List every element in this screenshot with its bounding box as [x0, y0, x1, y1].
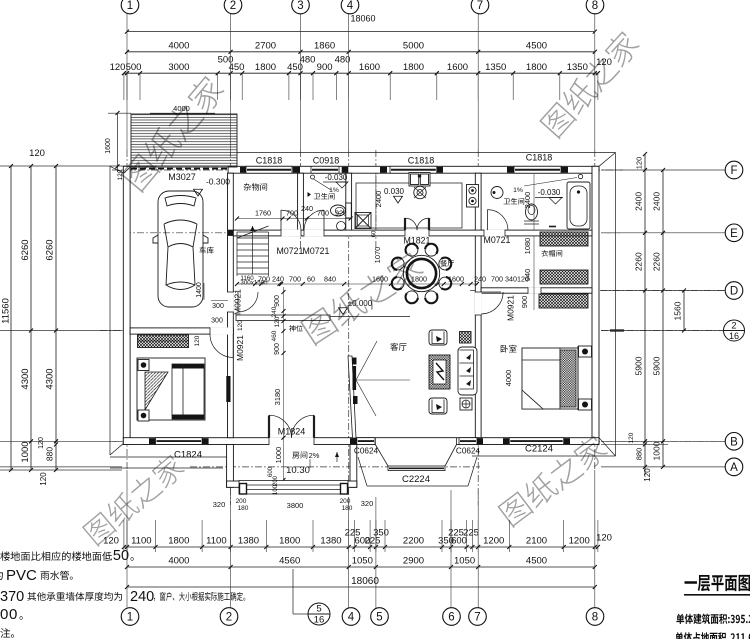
grid bubble B	[725, 433, 743, 451]
stairs	[237, 231, 269, 233]
door M0721 storage arc	[280, 210, 282, 230]
svg-text:900: 900	[317, 62, 333, 73]
storage room label	[244, 183, 268, 191]
exterior wall top	[228, 166, 599, 173]
svg-text:700: 700	[289, 275, 301, 284]
bay opening	[375, 437, 456, 445]
svg-text:C1818: C1818	[256, 156, 283, 166]
svg-text:M1824: M1824	[278, 427, 306, 437]
svg-text:2100: 2100	[526, 536, 547, 547]
svg-text:50: 50	[113, 548, 129, 564]
svg-text:1800: 1800	[168, 536, 189, 547]
svg-text:4: 4	[347, 0, 354, 12]
svg-text:2400: 2400	[634, 192, 644, 211]
svg-text:700: 700	[258, 275, 270, 284]
svg-text:240: 240	[301, 204, 313, 213]
window C1818 kitchen	[390, 166, 437, 173]
door opening M1824 on bottom wall	[269, 437, 314, 445]
svg-text:2260: 2260	[634, 252, 644, 271]
bottom dim row detail	[124, 546, 598, 548]
grid bubble E	[725, 224, 743, 242]
subtitle area line 1	[676, 614, 750, 624]
grid bubble D	[725, 282, 743, 300]
svg-text:0: 0	[9, 606, 17, 623]
svg-text:2200: 2200	[403, 536, 424, 547]
top overall dim 18060	[127, 31, 595, 33]
grid bubble A	[725, 458, 743, 476]
axis line 1	[126, 150, 128, 470]
tv sight lines	[356, 341, 377, 380]
svg-text:120: 120	[38, 437, 45, 449]
svg-text:340: 340	[505, 275, 517, 284]
svg-text:600: 600	[268, 466, 274, 477]
bedroom2 nightstands	[579, 346, 592, 357]
axis line F	[112, 169, 623, 171]
svg-text:4300: 4300	[20, 368, 31, 389]
svg-text:-0.030: -0.030	[538, 188, 561, 197]
sofa three seat	[458, 347, 477, 395]
svg-text:1000: 1000	[652, 441, 662, 460]
svg-text:4560: 4560	[279, 556, 300, 567]
note line 5	[0, 628, 14, 638]
bath1 floor drain	[355, 213, 371, 229]
svg-text:7: 7	[477, 0, 483, 12]
bay window C2224	[375, 445, 388, 467]
garage ramp hatched	[131, 114, 237, 167]
grid bubble 1 top	[121, 0, 139, 14]
door M1821 double arc	[404, 218, 406, 230]
svg-text:180: 180	[342, 505, 353, 512]
svg-text:4: 4	[348, 612, 355, 624]
svg-text:300: 300	[212, 303, 224, 310]
kitchen stove two burners	[467, 185, 479, 208]
svg-text:900: 900	[274, 295, 281, 307]
svg-text:1600: 1600	[105, 138, 112, 154]
svg-text:C0624: C0624	[354, 447, 379, 456]
grid bubble 5 bottom	[371, 608, 389, 626]
coffee table hatched	[429, 355, 450, 389]
svg-text:5900: 5900	[634, 356, 644, 375]
car	[153, 191, 208, 307]
svg-text:2900: 2900	[403, 556, 424, 567]
svg-text:4500: 4500	[526, 40, 547, 51]
left dim col 11560	[10, 166, 12, 470]
room label and slope	[292, 451, 307, 458]
grid bubble 8 top	[586, 0, 604, 14]
note line 2	[0, 570, 3, 580]
svg-text:1200: 1200	[483, 536, 504, 547]
svg-text:1050: 1050	[454, 556, 475, 567]
window C1818 bath2	[514, 166, 561, 173]
svg-text:M0721: M0721	[303, 246, 330, 256]
svg-text:120: 120	[274, 316, 281, 327]
svg-text:1070: 1070	[373, 247, 382, 264]
bedroom2 closet hatched	[539, 294, 588, 308]
svg-text:4000: 4000	[168, 556, 189, 567]
svg-text:1350: 1350	[567, 62, 588, 73]
svg-text:M1821: M1821	[404, 236, 431, 246]
svg-text:1000: 1000	[274, 447, 283, 464]
window C0624 left	[357, 438, 375, 445]
watermark center	[299, 249, 426, 346]
svg-text:60: 60	[372, 230, 378, 237]
svg-text:11560: 11560	[1, 298, 12, 324]
svg-text:4000: 4000	[168, 40, 189, 51]
svg-text:2400: 2400	[523, 192, 532, 209]
svg-text:2: 2	[230, 0, 236, 12]
svg-text:120: 120	[635, 157, 644, 170]
niche on axis2 wall	[226, 376, 230, 402]
svg-text:2260: 2260	[652, 252, 662, 271]
bath2 dim 2400	[533, 174, 535, 230]
bath1 label	[314, 193, 335, 200]
bottom dim row 4000 4560 1050 2900 1050 4500	[127, 566, 595, 568]
kitchen dim 2400	[375, 173, 377, 230]
svg-text:100: 100	[273, 484, 279, 495]
svg-text:1100: 1100	[131, 536, 151, 547]
svg-text:10.30: 10.30	[286, 465, 310, 476]
grid bubble 7 top	[471, 0, 489, 14]
svg-text:1800: 1800	[403, 62, 424, 73]
svg-text:M0921: M0921	[233, 289, 243, 315]
svg-text:1760: 1760	[255, 209, 271, 218]
grid bubble 2 top	[224, 0, 242, 14]
svg-text:C2124: C2124	[525, 444, 553, 455]
grid bubble 4 top	[341, 0, 359, 14]
svg-text:6260: 6260	[20, 239, 31, 260]
svg-text:180: 180	[238, 505, 249, 512]
svg-text:1860: 1860	[314, 40, 335, 51]
svg-text:900: 900	[274, 343, 281, 355]
svg-text:C1824: C1824	[174, 450, 202, 461]
svg-text:M0921: M0921	[506, 295, 516, 321]
left dim col 6260 4300 880 120	[55, 166, 57, 470]
bedroom1 bed	[137, 358, 205, 420]
watermark top-right	[538, 28, 642, 139]
window C0624 right	[459, 438, 477, 445]
svg-text:350: 350	[373, 528, 389, 539]
door M0921 garage arc	[237, 292, 239, 312]
svg-text:450: 450	[229, 62, 245, 73]
svg-text:320: 320	[213, 500, 226, 509]
subtitle area line 2	[675, 632, 750, 639]
svg-text:300: 300	[211, 318, 223, 325]
axis line 7	[477, 150, 479, 505]
svg-text:6: 6	[448, 612, 454, 624]
armchair bottom	[429, 398, 447, 414]
svg-text:1800: 1800	[279, 536, 300, 547]
svg-text:3000: 3000	[168, 62, 189, 73]
svg-text:3: 3	[297, 0, 303, 12]
svg-text:-0.300: -0.300	[206, 177, 230, 187]
ramp side dim 1600 120	[117, 113, 119, 172]
svg-text:480: 480	[300, 54, 316, 65]
svg-text:M0721: M0721	[277, 246, 304, 256]
armchair top	[429, 330, 447, 345]
top extension lines	[123, 73, 125, 100]
svg-text:1600: 1600	[447, 62, 468, 73]
svg-text:B: B	[730, 436, 738, 448]
svg-text:120: 120	[596, 533, 612, 544]
svg-text:4300: 4300	[45, 368, 56, 389]
svg-text:M0721: M0721	[484, 235, 511, 245]
kitchen counter outline	[356, 183, 462, 228]
svg-text:0: 0	[0, 606, 8, 623]
axis line 2	[230, 150, 232, 505]
svg-text:500: 500	[126, 62, 142, 73]
door opening M0921 dining on wall axis7	[475, 292, 482, 315]
interior wall bedroom1 top	[130, 328, 233, 334]
svg-text:120: 120	[29, 148, 45, 159]
right extension lines	[601, 169, 725, 171]
interior dim row mid	[237, 283, 478, 285]
svg-text:225: 225	[448, 528, 464, 539]
bath1 sink	[337, 222, 346, 231]
room protrusion left wall	[227, 445, 234, 488]
svg-text:A: A	[730, 462, 738, 474]
left extension lines	[0, 165, 157, 167]
door M0921 bedroom1 arc	[232, 334, 234, 358]
svg-text:1350: 1350	[485, 62, 506, 73]
door M0721 bath1 arc	[323, 210, 325, 230]
left dim col 6260 4300 1000	[30, 166, 32, 470]
eave corner diagonals	[110, 166, 124, 173]
watermark top-left	[119, 73, 227, 193]
bath2 toilet	[526, 204, 538, 220]
svg-text:120: 120	[643, 468, 652, 482]
side table	[460, 398, 472, 410]
axis line D	[470, 290, 725, 292]
cloakroom dims	[533, 236, 535, 310]
svg-text:120: 120	[628, 432, 635, 443]
svg-text:3180: 3180	[273, 389, 282, 406]
svg-text:1%: 1%	[329, 187, 339, 194]
svg-text:1100: 1100	[206, 536, 226, 547]
svg-text:2: 2	[731, 321, 736, 331]
axis line 2-16 section	[100, 330, 123, 332]
grid bubble 4 bottom	[342, 608, 360, 626]
svg-text:240: 240	[271, 306, 278, 317]
svg-text:320: 320	[361, 499, 374, 508]
svg-text:1000: 1000	[20, 441, 31, 462]
bedroom1 nightstands	[138, 360, 149, 371]
svg-text:M3027: M3027	[168, 172, 196, 182]
interior wall axis7	[475, 173, 481, 438]
door opening M0721 bath2 on wall E	[484, 230, 505, 237]
axis line E	[124, 232, 620, 234]
grid bubble F	[725, 161, 743, 179]
interior wall axis3	[298, 173, 304, 236]
window C0918 bath1	[311, 166, 339, 173]
svg-text:D: D	[730, 286, 738, 298]
bottom overall dim 18060	[127, 586, 595, 588]
svg-text:900: 900	[520, 296, 529, 309]
watermark bottom-right	[497, 433, 611, 528]
svg-text:18060: 18060	[351, 576, 379, 587]
bedroom1 wardrobe hatched	[138, 335, 189, 348]
watermark bottom-left	[81, 452, 187, 547]
axis line 5	[375, 150, 377, 250]
svg-text:1600: 1600	[448, 275, 464, 284]
garage label	[200, 247, 214, 254]
door M0921 dining arc	[481, 291, 501, 293]
door opening M0721 storage on wall E	[281, 230, 301, 237]
kitchen burner	[414, 186, 426, 198]
cloakroom label	[541, 250, 562, 257]
svg-text:120: 120	[237, 320, 244, 331]
svg-text:940: 940	[523, 269, 532, 282]
svg-text:5: 5	[376, 612, 382, 624]
svg-text:0.030: 0.030	[384, 187, 405, 196]
svg-text:120: 120	[103, 536, 119, 547]
door opening M1821 kitchen on wall E	[405, 230, 429, 237]
window C2124 bedroom2	[509, 438, 563, 445]
svg-text:120: 120	[110, 62, 126, 73]
cloakroom opening on wall D	[528, 287, 541, 293]
living room label	[390, 343, 406, 351]
dining table round with chairs	[403, 255, 439, 291]
right dim col inner 2400 2260 5900 880	[644, 154, 646, 475]
exterior wall bottom	[123, 438, 599, 445]
top dim row detail	[124, 72, 598, 74]
svg-text:1380: 1380	[320, 536, 341, 547]
svg-text:2400: 2400	[374, 191, 383, 208]
svg-text:1080: 1080	[523, 238, 532, 255]
door opening M0721 bath1 on wall E	[304, 230, 324, 237]
svg-text:18060: 18060	[350, 14, 375, 24]
window C1824 bedroom1	[156, 438, 203, 445]
dining label	[440, 260, 454, 267]
svg-text:1380: 1380	[238, 536, 259, 547]
svg-text:C2224: C2224	[402, 474, 430, 485]
svg-text:60: 60	[307, 275, 315, 284]
svg-text:6260: 6260	[45, 239, 56, 260]
room protrusion right wall	[350, 445, 357, 488]
svg-text:1600: 1600	[372, 275, 388, 284]
svg-text:480: 480	[335, 54, 351, 65]
svg-text:2700: 2700	[255, 40, 276, 51]
door opening M0921 bedroom1 on top wall	[210, 327, 233, 334]
svg-text:5000: 5000	[403, 40, 424, 51]
interior wall axis2	[228, 173, 234, 438]
svg-text:1800: 1800	[411, 275, 427, 284]
grid bubble 7 bottom	[469, 608, 487, 626]
cloakroom wardrobe bottom	[540, 270, 588, 284]
top dim row 4000 2700 1860 5000 4500	[127, 51, 595, 53]
bath2 sink round	[491, 187, 503, 199]
grid bubble 1 bottom	[121, 608, 139, 626]
svg-text:120: 120	[194, 335, 201, 346]
svg-text:1: 1	[127, 0, 133, 12]
door M0721 bath2 arc	[487, 210, 489, 231]
svg-text:5: 5	[316, 604, 321, 615]
right dim col outer 2400 2260 5900 1000	[662, 170, 664, 467]
garage door M3027 dashed	[131, 168, 228, 170]
svg-text:M0921: M0921	[235, 335, 245, 361]
svg-text:880: 880	[635, 448, 644, 461]
svg-text:200: 200	[340, 498, 351, 505]
axis line 4	[348, 150, 350, 505]
bottom extension lines	[123, 520, 125, 552]
grid bubble 3 top	[292, 0, 310, 14]
axis line 8	[594, 150, 596, 470]
cloakroom wardrobe top	[540, 232, 588, 246]
bedroom2 bed	[522, 348, 578, 409]
eave outline	[109, 166, 111, 455]
section bubble 2-16	[724, 320, 745, 341]
svg-text:1%: 1%	[513, 187, 523, 194]
svg-text:2: 2	[226, 612, 232, 624]
svg-text:16: 16	[729, 331, 739, 341]
svg-text:120: 120	[39, 472, 48, 486]
porch steps	[239, 481, 348, 495]
svg-text:240: 240	[130, 589, 154, 605]
interior wall D	[481, 288, 592, 293]
door opening M0921 on wall axis2	[227, 292, 234, 312]
exterior wall right	[592, 166, 599, 444]
title first floor plan	[685, 575, 750, 591]
bedroom2 headboard	[577, 346, 579, 410]
svg-text:P: P	[6, 567, 16, 584]
svg-text:460: 460	[271, 330, 278, 341]
svg-text:F: F	[730, 165, 737, 177]
svg-text:880: 880	[45, 447, 55, 461]
svg-text:700: 700	[491, 275, 503, 284]
svg-text:-0.030: -0.030	[325, 173, 348, 182]
right dim col 1560	[683, 291, 685, 331]
svg-text:240: 240	[474, 275, 486, 284]
svg-text:1160: 1160	[240, 275, 254, 282]
svg-text:370: 370	[0, 589, 24, 605]
svg-text:2%: 2%	[309, 451, 320, 460]
bath2 bathtub	[567, 182, 590, 229]
svg-text:4000: 4000	[504, 370, 513, 387]
storage dim row	[237, 218, 351, 220]
svg-text:1400: 1400	[196, 282, 203, 298]
bedroom2 label	[501, 345, 517, 353]
svg-text:7: 7	[474, 612, 480, 624]
svg-text:1050: 1050	[352, 556, 373, 567]
svg-text:1600: 1600	[359, 62, 380, 73]
svg-text:C1818: C1818	[408, 156, 435, 166]
svg-text:5900: 5900	[652, 356, 662, 375]
bath2 label	[504, 198, 525, 205]
tv cabinet	[348, 356, 356, 438]
altar shelf	[236, 315, 330, 321]
svg-text:C1818: C1818	[526, 153, 553, 163]
svg-text:2400: 2400	[652, 192, 662, 211]
svg-text:E: E	[730, 228, 738, 240]
kitchen sink	[409, 173, 430, 187]
axis line B	[112, 440, 725, 442]
svg-text:C0918: C0918	[313, 156, 340, 166]
svg-text:200: 200	[236, 498, 247, 505]
bath1 toilet	[331, 205, 346, 216]
svg-text:840: 840	[324, 275, 336, 284]
svg-text:1: 1	[127, 612, 133, 624]
svg-text:1800: 1800	[526, 62, 547, 73]
svg-text:8: 8	[592, 612, 598, 624]
svg-text:3800: 3800	[287, 501, 304, 510]
svg-text:1200: 1200	[569, 536, 590, 547]
interior wall axis4	[346, 173, 352, 236]
porch columns	[240, 484, 247, 495]
room protrusion bottom wall with sill window	[227, 481, 357, 487]
grid bubble 2 bottom	[220, 608, 238, 626]
svg-text:225: 225	[463, 528, 479, 539]
svg-text:8: 8	[592, 0, 598, 12]
svg-text:4500: 4500	[526, 556, 547, 567]
